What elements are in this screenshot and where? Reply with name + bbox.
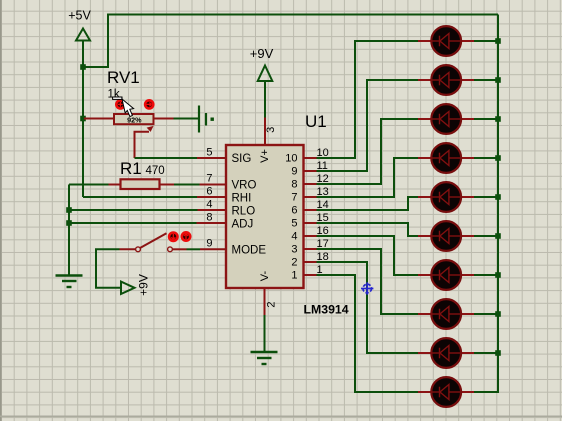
wire pin 10 to LED1 xyxy=(317,41,419,158)
wire pin 1 to LED10 xyxy=(317,275,419,392)
wire pin 13 to LED4 xyxy=(317,158,419,197)
svg-text:10: 10 xyxy=(285,153,297,165)
wire ADJ xyxy=(69,222,197,224)
wire LED9 to bus xyxy=(474,352,498,354)
svg-text:SIG: SIG xyxy=(232,153,252,165)
resistor R1 xyxy=(121,179,160,189)
svg-text:RV1: RV1 xyxy=(107,68,140,87)
wire +5V bus right xyxy=(497,15,499,393)
wire LED3 to bus xyxy=(474,118,498,120)
LED D8 xyxy=(418,299,474,329)
node junction bus LED7 xyxy=(495,272,501,278)
svg-text:V+: V+ xyxy=(259,149,271,163)
LED D3 xyxy=(418,104,474,134)
wire switch left xyxy=(120,248,136,250)
svg-text:2: 2 xyxy=(291,257,297,269)
pin 3 stub xyxy=(264,118,266,147)
pin 3 V+ wire xyxy=(264,81,266,118)
wire pin 17 to LED8 xyxy=(317,249,419,314)
pin 14 stub xyxy=(304,209,317,211)
LED D9 xyxy=(418,338,474,368)
svg-text:V-: V- xyxy=(259,270,271,281)
pin 10 stub xyxy=(304,157,317,159)
svg-text:5: 5 xyxy=(291,218,297,230)
node junction top xyxy=(80,64,86,70)
wire switch right xyxy=(173,248,187,250)
LED D2 xyxy=(418,65,474,95)
wire pin2 to ground xyxy=(264,315,266,352)
pin 1 stub xyxy=(304,274,317,276)
wire pot right xyxy=(153,118,174,120)
pin 16 stub xyxy=(304,235,317,237)
wire xyxy=(69,184,109,186)
pin 17 stub xyxy=(304,248,317,250)
node junction bus LED5 xyxy=(495,194,501,200)
svg-text:5: 5 xyxy=(206,147,212,159)
wire LED1 to bus xyxy=(474,40,498,42)
svg-text:9: 9 xyxy=(206,238,212,250)
pin 2 stub xyxy=(264,288,266,315)
wire top rail xyxy=(83,15,498,68)
annotation handle down-arrow xyxy=(169,233,177,241)
svg-text:3: 3 xyxy=(265,127,277,133)
wire xyxy=(187,248,201,250)
ground bottom xyxy=(251,352,278,364)
wire pot left xyxy=(84,118,115,120)
pin 13 stub xyxy=(304,196,317,198)
wire LED10 to bus xyxy=(474,391,499,393)
wire LED7 to bus xyxy=(474,274,498,276)
node junction bus LED3 xyxy=(495,116,501,122)
LED D5 xyxy=(418,182,474,212)
svg-text:6: 6 xyxy=(206,186,212,198)
svg-text:+5V: +5V xyxy=(68,9,91,23)
node junction ADJ xyxy=(66,220,72,226)
wire RLO xyxy=(69,209,198,211)
pin 7 VRO stub xyxy=(200,184,227,186)
wire R1 left pin xyxy=(109,184,120,186)
svg-text:4: 4 xyxy=(206,199,212,211)
LED D4 xyxy=(418,143,474,173)
pin 6 RHI stub xyxy=(197,196,226,198)
svg-text:4: 4 xyxy=(291,231,297,243)
node junction bus LED1 xyxy=(495,38,501,44)
LED D1 xyxy=(418,26,474,56)
svg-text:U1: U1 xyxy=(305,112,327,131)
RV1 wiper xyxy=(135,126,154,158)
switch right contact xyxy=(168,247,173,252)
annotation handle left-arrow xyxy=(116,100,124,108)
node junction RLO xyxy=(66,207,72,213)
switch SW lever xyxy=(140,233,167,248)
battery cell xyxy=(199,106,214,133)
svg-text:7: 7 xyxy=(291,192,297,204)
wire LED8 to bus xyxy=(474,313,498,315)
wire pin 16 to LED7 xyxy=(317,236,419,275)
node junction bus LED6 xyxy=(495,233,501,239)
svg-text:8: 8 xyxy=(206,212,212,224)
wire xyxy=(82,119,84,198)
svg-text:2: 2 xyxy=(265,302,277,308)
power +9V arrow right xyxy=(121,282,135,294)
pin 4 RLO stub xyxy=(198,209,227,211)
wire LED6 to bus xyxy=(474,235,498,237)
svg-text:1: 1 xyxy=(291,270,297,282)
pin 9 MODE stub xyxy=(200,248,226,250)
wire pin 18 to LED9 xyxy=(317,262,419,353)
svg-text:VRO: VRO xyxy=(232,180,257,192)
svg-text:6: 6 xyxy=(291,205,297,217)
node junction bus LED9 xyxy=(495,350,501,356)
pin 11 stub xyxy=(304,170,317,172)
IC U1 body xyxy=(226,145,304,288)
wire LED2 to bus xyxy=(474,79,498,81)
pin 12 stub xyxy=(304,183,317,185)
power +5V arrow xyxy=(76,29,90,41)
pin 18 stub xyxy=(304,261,317,263)
svg-text:RHI: RHI xyxy=(232,193,252,205)
wire xyxy=(96,249,121,287)
wire pin 11 to LED2 xyxy=(317,80,419,171)
svg-text:MODE: MODE xyxy=(232,245,267,257)
LED D6 xyxy=(418,221,474,251)
wire LED5 to bus xyxy=(474,196,498,198)
svg-text:+9V: +9V xyxy=(250,46,274,61)
wire pin 14 to LED5 xyxy=(317,197,419,210)
power +9V arrow top xyxy=(258,66,273,82)
LED D7 xyxy=(418,260,474,290)
svg-text:ADJ: ADJ xyxy=(232,219,254,231)
svg-text:+9V: +9V xyxy=(137,274,151,296)
pin 15 stub xyxy=(304,222,317,224)
svg-text:R1: R1 xyxy=(120,159,142,178)
wire pin 15 to LED6 xyxy=(317,223,419,236)
wire ground net vertical xyxy=(68,185,70,277)
svg-text:8: 8 xyxy=(291,179,297,191)
pin 5 SIG stub xyxy=(197,157,226,159)
wire LED4 to bus xyxy=(474,157,498,159)
svg-text:3: 3 xyxy=(291,244,297,256)
wire SIG xyxy=(135,157,198,159)
svg-text:RLO: RLO xyxy=(232,206,256,218)
node junction pot xyxy=(80,116,86,122)
wire pin 12 to LED3 xyxy=(317,119,419,184)
node junction bus LED8 xyxy=(495,311,501,317)
wire xyxy=(82,41,84,119)
node junction bus LED4 xyxy=(495,155,501,161)
mouse cursor xyxy=(113,97,134,117)
pin 8 ADJ stub xyxy=(197,222,227,224)
potentiometer RV1 xyxy=(114,114,154,124)
wire xyxy=(174,118,200,120)
wire RHI xyxy=(83,196,197,198)
node junction bus LED2 xyxy=(495,77,501,83)
ground left xyxy=(56,276,83,288)
svg-text:LM3914: LM3914 xyxy=(304,303,349,317)
annotation handle right-arrow xyxy=(145,100,153,108)
svg-text:7: 7 xyxy=(206,173,212,185)
svg-text:92%: 92% xyxy=(127,115,142,124)
switch left contact xyxy=(136,247,141,252)
LED D10 xyxy=(418,377,474,407)
svg-text:9: 9 xyxy=(291,166,297,178)
node origin marker xyxy=(361,282,373,294)
wire xyxy=(174,184,200,186)
wire R1 right pin xyxy=(161,184,175,186)
annotation handle up-arrow xyxy=(182,232,190,240)
svg-text:470: 470 xyxy=(146,165,165,177)
